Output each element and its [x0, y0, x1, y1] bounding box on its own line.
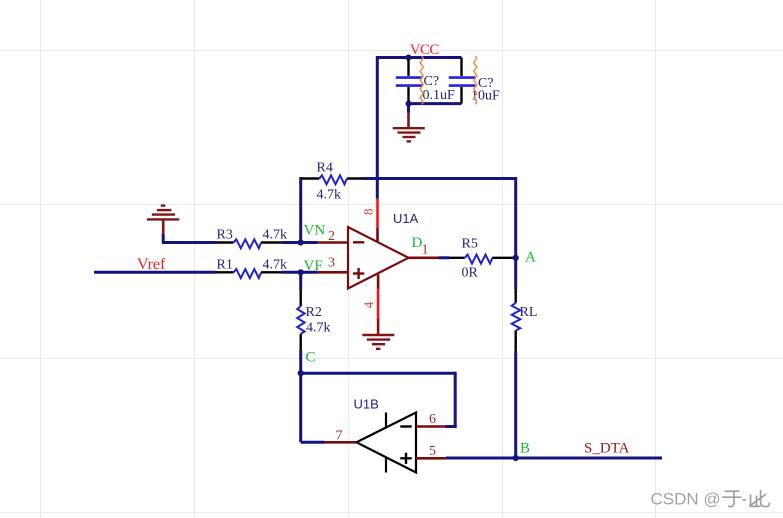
capacitor C? 10uF: [449, 58, 500, 104]
op-amp U1B: [357, 413, 417, 473]
svg-text:RL: RL: [520, 305, 538, 320]
wire C down to pin 7: [301, 373, 325, 442]
svg-text:8: 8: [360, 208, 375, 215]
net label VN: [304, 222, 326, 238]
wire VCC top rail: [377, 56, 461, 59]
pin 5 wire: [416, 457, 446, 460]
net label C: [306, 350, 316, 366]
svg-text:U1A: U1A: [393, 211, 419, 226]
pin 6 wire: [416, 425, 446, 428]
wire RL to B junction: [514, 352, 517, 459]
svg-text:2: 2: [328, 229, 335, 244]
wire pin 5 to B and edge: [446, 457, 662, 460]
wire R2 to C junction: [299, 350, 302, 373]
svg-text:C: C: [306, 350, 316, 366]
resistor RL: [512, 289, 538, 352]
pin number 3: [328, 256, 335, 271]
net label VF: [304, 258, 323, 274]
svg-text:4: 4: [361, 301, 376, 308]
resistor R4: [302, 161, 364, 203]
svg-text:6: 6: [429, 412, 436, 427]
resistor R2: [297, 290, 330, 350]
junction cap bottom: [406, 101, 412, 107]
wire R1 to VF junction: [282, 271, 301, 274]
svg-text:0.1uF: 0.1uF: [423, 88, 456, 103]
output pin 1 wire: [409, 256, 450, 259]
svg-text:7: 7: [336, 429, 343, 444]
svg-text:1: 1: [422, 243, 429, 258]
error squiggle marker C2: [474, 56, 477, 104]
svg-text:CSDN @: CSDN @: [651, 490, 721, 509]
svg-text:0R: 0R: [462, 266, 479, 281]
svg-text:VCC: VCC: [410, 42, 440, 58]
pin number 2: [328, 229, 335, 244]
watermark CSDN: [651, 490, 770, 509]
op-amp U1A: [348, 227, 409, 289]
svg-text:U1B: U1B: [354, 397, 379, 412]
net label D: [412, 235, 423, 251]
wire VF junction down to R2: [299, 272, 302, 290]
junction VCC top: [406, 55, 412, 61]
net label B: [520, 440, 530, 456]
svg-text:Vref: Vref: [137, 256, 166, 273]
wire R3 to VN junction: [282, 241, 301, 244]
pin number 6: [429, 412, 436, 427]
net label S_DTA: [584, 441, 630, 457]
junction B: [513, 455, 519, 461]
svg-text:3: 3: [328, 256, 335, 271]
junction A: [513, 255, 519, 261]
junction VF: [298, 269, 304, 275]
designator U1A: [393, 211, 419, 226]
pin number 1: [422, 243, 429, 258]
svg-text:R3: R3: [217, 227, 233, 242]
svg-text:5: 5: [429, 444, 436, 459]
junction VN: [298, 239, 304, 245]
ground top-left (inverted): [147, 206, 179, 236]
svg-text:A: A: [525, 250, 536, 266]
junction C: [298, 370, 304, 376]
resistor R1: [216, 257, 287, 278]
resistor R3: [216, 227, 287, 248]
pin 3 wire: [301, 271, 348, 274]
ground under pin 4: [362, 319, 394, 349]
pin 2 wire: [301, 241, 348, 244]
svg-text:4.7k: 4.7k: [263, 257, 288, 272]
error squiggle marker C1: [420, 56, 423, 104]
wire ground to R3: [162, 234, 217, 243]
net label A: [525, 250, 536, 266]
net label Vref: [137, 256, 166, 273]
wire R4 top rail: [301, 177, 516, 258]
wire Vref: [94, 271, 217, 274]
svg-text:R1: R1: [217, 257, 233, 272]
svg-text:4.7k: 4.7k: [263, 227, 288, 242]
pin 4 (power): [361, 275, 378, 320]
svg-text:VN: VN: [304, 222, 326, 238]
wire VCC left drop to pin 8: [376, 56, 379, 199]
svg-text:B: B: [520, 440, 530, 456]
capacitor C? 0.1uF: [396, 59, 455, 103]
ground under capacitors: [393, 104, 425, 142]
wire cap bottom rail: [409, 102, 462, 105]
pin number 5: [429, 444, 436, 459]
resistor R5: [449, 237, 516, 281]
designator U1B: [354, 397, 379, 412]
svg-text:R5: R5: [462, 237, 478, 252]
svg-text:S_DTA: S_DTA: [584, 441, 630, 457]
pin number 7: [336, 429, 343, 444]
power port VCC: [410, 42, 440, 58]
pin 7 wire: [325, 441, 357, 444]
wire C to U1B pin 6 loop: [301, 372, 457, 427]
svg-text:C?: C?: [424, 74, 440, 89]
svg-text:R2: R2: [306, 305, 322, 320]
pin 8 (power): [360, 199, 377, 242]
svg-text:4.7k: 4.7k: [306, 321, 331, 336]
svg-text:4.7k: 4.7k: [317, 188, 342, 203]
svg-text:R4: R4: [317, 161, 333, 176]
wire A column to RL: [514, 258, 517, 289]
